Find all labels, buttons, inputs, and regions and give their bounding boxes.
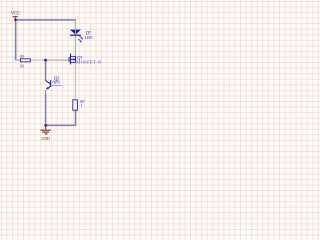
svg-text:GND: GND (41, 136, 49, 141)
svg-text:1: 1 (80, 103, 82, 108)
svg-text:NPN: NPN (52, 80, 61, 85)
svg-text:VCC: VCC (11, 10, 21, 16)
svg-text:1K: 1K (20, 65, 24, 69)
svg-text:LED: LED (85, 35, 92, 40)
svg-text:R?: R? (20, 55, 24, 59)
svg-text:MOSFET-N: MOSFET-N (76, 60, 102, 65)
